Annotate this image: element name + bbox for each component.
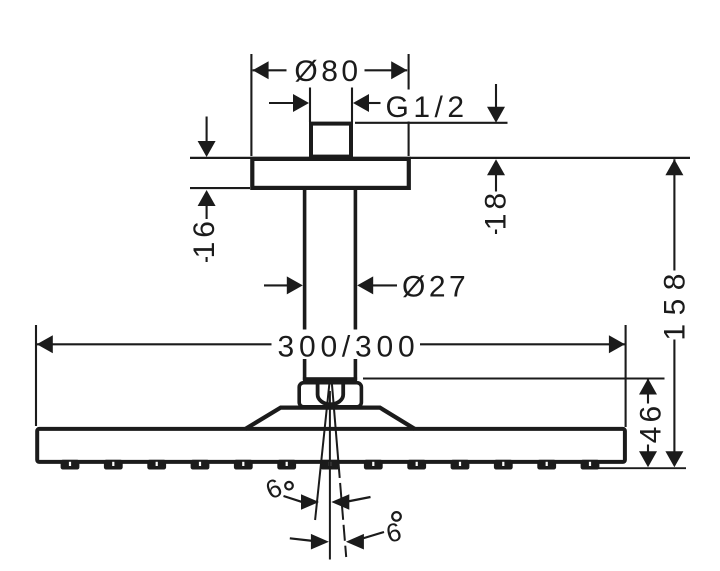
ball joint housing [299, 383, 361, 407]
arrow 16 bottom [198, 190, 216, 206]
G1/2 threaded connector stub [311, 124, 351, 157]
arrow angle upper right [331, 494, 349, 510]
arrow Ø80 right [391, 61, 407, 79]
arrow Ø27 left [287, 276, 303, 294]
arrow angle upper left [301, 494, 319, 510]
nozzle bottom extension line [598, 467, 686, 469]
dim G1/2 extension left [309, 88, 311, 123]
spray angle right line [332, 384, 339, 463]
angle leader lower right [363, 532, 385, 539]
arrow 300/300 right [609, 335, 625, 353]
svg-text:Ø80: Ø80 [294, 55, 361, 88]
svg-text:300/300: 300/300 [277, 330, 419, 363]
text mask 46 [635, 404, 662, 445]
svg-text:G1/2: G1/2 [386, 91, 469, 124]
arrow G1/2 left [293, 94, 309, 112]
arrow Ø27 right [357, 276, 373, 294]
dim Ø80 extension right [408, 54, 410, 156]
label 6deg upper [261, 472, 287, 505]
dim Ø80 extension left [250, 54, 252, 156]
arrow 158 bottom [665, 451, 683, 467]
arrow angle lower right [346, 534, 364, 550]
arrow 158 top [665, 159, 683, 175]
arrow 16 top [198, 141, 216, 157]
svg-text:Ø27: Ø27 [402, 271, 469, 304]
arrow G1/2 right [353, 94, 369, 112]
dim 18 line [495, 84, 497, 108]
arrow 18 bottom [487, 159, 505, 175]
head cone trapezoid [245, 408, 414, 429]
text mask 16 [195, 219, 217, 257]
ball joint inner cup [318, 384, 344, 405]
angle leader upper left [284, 496, 304, 502]
arrow Ø80 left [253, 61, 269, 79]
dim 300/300 extension right [625, 325, 627, 427]
svg-text:158: 158 [659, 265, 692, 341]
svg-text:16: 16 [188, 217, 221, 258]
text mask 158 [662, 271, 687, 340]
pipe left wall [303, 188, 307, 380]
svg-text:18: 18 [480, 189, 513, 230]
text mask 300/300 [272, 330, 421, 360]
dim 300/300 line [37, 343, 625, 345]
ball joint nut bar [303, 377, 357, 382]
dim Ø27 line [264, 284, 288, 286]
svg-text:46: 46 [634, 402, 667, 443]
dim 46 line [647, 379, 649, 453]
arrow 46 bottom [639, 451, 657, 467]
pipe right wall [354, 188, 358, 380]
arrow 18 top [487, 107, 505, 123]
dim 46 extension (housing top) [363, 377, 665, 379]
shower head plate [37, 429, 625, 462]
dim 158 line [673, 159, 675, 452]
dim 16 extension (flange bottom) [190, 187, 250, 189]
dim G1/2 line [269, 102, 295, 104]
nozzle row [61, 460, 600, 470]
text mask G1/2 [381, 90, 468, 122]
spray angle left line [315, 384, 329, 521]
dim 18 extension (connector top) [355, 122, 508, 124]
spray angle right line lower (dashed) [338, 462, 346, 557]
dim 16 line [206, 117, 208, 143]
ceiling line [190, 157, 690, 159]
text mask 18 [484, 192, 507, 230]
angle leader lower left [290, 538, 313, 541]
label 6deg lower [383, 516, 405, 549]
spray center line [329, 391, 331, 560]
nozzle notches [69, 462, 591, 466]
arrow 300/300 left [37, 335, 53, 353]
ceiling flange plate [252, 159, 408, 188]
angle leader upper right [348, 497, 371, 502]
arrow angle lower left [311, 534, 329, 550]
dim Ø80 line [253, 69, 287, 71]
arrow 46 top [639, 379, 657, 395]
dim 300/300 extension left [35, 325, 37, 426]
dim G1/2 extension right [351, 88, 353, 123]
